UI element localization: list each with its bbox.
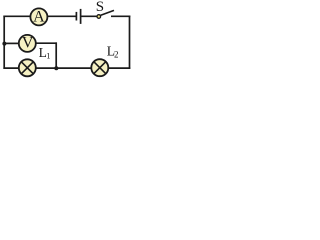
background [0,0,134,78]
svg-text:V: V [22,35,34,52]
svg-text:1: 1 [46,51,50,61]
wire: left vertical side [3,16,5,69]
wire: lamp L1 to lamp L2 [36,67,92,69]
wire: battery to switch pivot [81,15,98,17]
lamp L2 [91,59,108,76]
label L1 [39,45,51,61]
lamp L1 [19,59,36,76]
svg-text:S: S [96,0,104,15]
wire: right vertical side [129,16,131,69]
svg-text:2: 2 [114,49,119,59]
wire: parallel branch vertical drop [55,42,57,68]
voltmeter V [19,35,36,52]
node: junction dot on left side at voltmeter branch [2,42,6,46]
ammeter A [30,8,47,25]
battery: long plate (right) [80,9,82,24]
wire: ammeter to battery [47,15,77,17]
wire: lamp L2 to bottom-right corner [108,67,130,69]
wire: bottom-left to lamp L1 [3,67,19,69]
node: junction dot on bottom wire [54,66,58,70]
wire: top-left segment to ammeter [3,15,31,17]
battery: short plate (left) [75,12,77,21]
wire: switch fixed contact to top-right corner [111,15,130,17]
svg-text:A: A [33,9,45,26]
switch S: pivot circle [97,15,101,19]
wire: voltmeter branch from left side [4,42,19,44]
wire: voltmeter to parallel-branch corner [36,42,58,44]
switch S: blade [100,10,114,15]
label L2 [107,43,119,59]
